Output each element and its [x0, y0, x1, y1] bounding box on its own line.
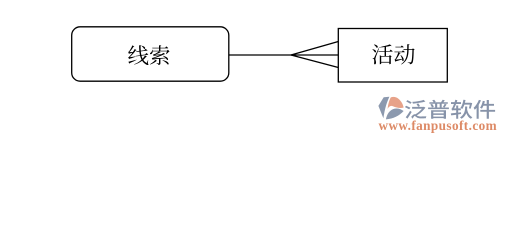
svg-text:www.fanpusoft.com: www.fanpusoft.com: [379, 118, 498, 133]
